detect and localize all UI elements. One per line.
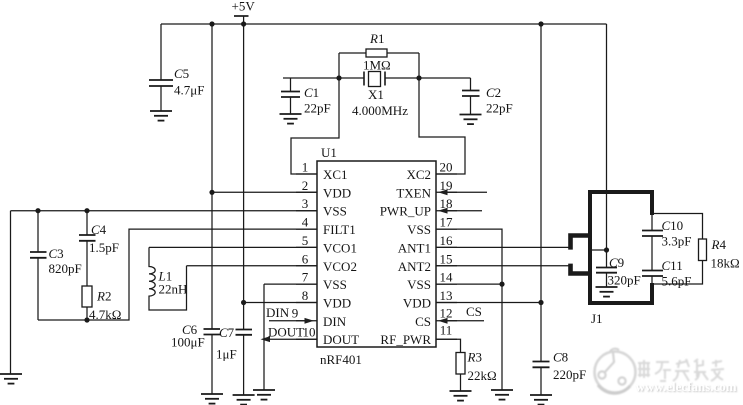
svg-text:4: 4 xyxy=(302,215,309,230)
pin 13 VDD xyxy=(403,288,457,311)
svg-text:11: 11 xyxy=(440,323,453,338)
svg-text:TXEN: TXEN xyxy=(396,185,431,200)
svg-text:C10: C10 xyxy=(662,218,684,233)
svg-text:C11: C11 xyxy=(662,258,683,273)
svg-text:VCO1: VCO1 xyxy=(323,240,357,255)
svg-text:VDD: VDD xyxy=(323,296,351,311)
watermark logo circle xyxy=(595,349,636,394)
junction dot crystal right node xyxy=(416,75,421,80)
pin 6 VCO2 xyxy=(296,251,357,274)
svg-text:X1: X1 xyxy=(368,87,384,102)
svg-text:R3: R3 xyxy=(467,350,482,365)
svg-text:22nH: 22nH xyxy=(159,282,188,297)
capacitor C7 1uF xyxy=(216,325,252,395)
junction dot C3 top xyxy=(35,208,40,213)
ground for R3 xyxy=(450,391,472,401)
svg-text:1MΩ: 1MΩ xyxy=(363,58,391,73)
svg-text:16: 16 xyxy=(440,233,454,248)
wire pin13 VDD to +5V column xyxy=(436,302,541,304)
svg-text:R4: R4 xyxy=(711,237,727,252)
svg-text:20: 20 xyxy=(440,160,453,175)
signal DOUT arrow out of pin 10 xyxy=(261,325,318,343)
junction dot pin8 VDD xyxy=(241,300,246,305)
svg-text:XC1: XC1 xyxy=(323,167,348,182)
svg-text:7: 7 xyxy=(302,270,309,285)
signal DIN arrow into pin 9 xyxy=(266,305,314,324)
svg-text:13: 13 xyxy=(440,288,453,303)
capacitor C6 100uF xyxy=(171,322,220,394)
svg-text:14: 14 xyxy=(440,270,454,285)
svg-text:CS: CS xyxy=(415,314,431,329)
connector J1 box xyxy=(590,192,652,303)
wire pin6 VCO2 xyxy=(187,265,318,267)
svg-text:5: 5 xyxy=(302,233,309,248)
svg-text:22kΩ: 22kΩ xyxy=(468,368,497,383)
svg-text:R1: R1 xyxy=(369,31,384,46)
svg-text:18kΩ: 18kΩ xyxy=(711,256,740,271)
svg-text:VSS: VSS xyxy=(407,222,431,237)
svg-text:320pF: 320pF xyxy=(608,273,641,288)
svg-text:1μF: 1μF xyxy=(216,347,237,362)
svg-text:C1: C1 xyxy=(304,85,319,100)
ground for C5 xyxy=(150,111,172,121)
svg-text:VSS: VSS xyxy=(407,277,431,292)
svg-text:VDD: VDD xyxy=(323,185,351,200)
ground for C8 xyxy=(530,395,552,405)
pin 17 VSS xyxy=(407,215,457,238)
svg-text:12: 12 xyxy=(440,305,453,320)
pin 1 XC1 xyxy=(296,160,348,183)
svg-text:8: 8 xyxy=(302,288,309,303)
watermark text dianzifashaoyou xyxy=(638,359,724,381)
svg-text:+5V: +5V xyxy=(232,0,256,14)
svg-text:5.6pF: 5.6pF xyxy=(662,274,692,289)
pin 16 ANT1 xyxy=(398,233,457,256)
signal PWR_UP arrow into pin 18 xyxy=(438,208,482,214)
svg-text:C8: C8 xyxy=(553,350,568,365)
svg-text:VDD: VDD xyxy=(403,296,431,311)
svg-text:9: 9 xyxy=(292,305,299,320)
svg-text:DOUT: DOUT xyxy=(268,325,304,340)
crystal X1 4.000MHz xyxy=(339,72,419,119)
wire ANT2 pin15 to J1 xyxy=(436,265,571,267)
wire +5V rail down to J1 / C9 node xyxy=(606,24,608,250)
ground for VSS column xyxy=(491,390,513,400)
svg-text:DOUT: DOUT xyxy=(323,332,359,347)
wire pin8 VDD to rail column xyxy=(244,302,317,304)
svg-text:3: 3 xyxy=(302,196,309,211)
wire crystal left node to pin 1 XC1 xyxy=(291,78,339,174)
svg-text:PWR_UP: PWR_UP xyxy=(380,204,431,219)
capacitor C9 320pF xyxy=(596,250,641,288)
svg-text:FILT1: FILT1 xyxy=(323,222,356,237)
capacitor C10 3.3pF xyxy=(642,215,691,271)
ground for C2 xyxy=(460,115,482,125)
connector tab ANT2 xyxy=(571,264,591,274)
ground far left xyxy=(0,374,22,384)
capacitor C4 1.5pF xyxy=(79,211,119,286)
svg-text:VSS: VSS xyxy=(323,204,347,219)
svg-text:3.3pF: 3.3pF xyxy=(662,234,692,249)
capacitor C11 5.6pF xyxy=(642,258,691,289)
pin 3 VSS xyxy=(296,196,347,219)
svg-text:17: 17 xyxy=(440,215,454,230)
svg-text:4.000MHz: 4.000MHz xyxy=(352,103,408,118)
svg-text:C7: C7 xyxy=(219,325,235,340)
wire +5V column down to C8 xyxy=(540,24,542,362)
pin 5 VCO1 xyxy=(296,233,357,256)
svg-text:6: 6 xyxy=(302,251,309,266)
svg-text:XC2: XC2 xyxy=(406,167,431,182)
signal TXEN arrow into pin 19 xyxy=(438,189,487,195)
junction dot rail x243.6 xyxy=(241,21,246,26)
wire +5V top rail xyxy=(161,23,607,25)
svg-text:1: 1 xyxy=(302,160,309,175)
svg-text:C3: C3 xyxy=(49,246,64,261)
svg-text:DIN: DIN xyxy=(266,305,290,320)
resistor R3 22kohm xyxy=(456,350,497,392)
capacitor C2 22pF xyxy=(419,78,513,116)
pin 15 ANT2 xyxy=(398,251,457,274)
pin 10 DOUT xyxy=(296,325,359,348)
capacitor C8 220pF xyxy=(533,350,587,396)
junction dot crystal left node xyxy=(336,75,341,80)
wire pin14 VSS to VSS column xyxy=(436,283,502,285)
pin 8 VDD xyxy=(296,288,351,311)
junction dot C4 top xyxy=(84,208,89,213)
junction dot rail x212 xyxy=(209,21,214,26)
svg-text:10: 10 xyxy=(303,325,316,340)
wire VDD rail to pin2 and C6 xyxy=(211,24,213,329)
wire pin11 RF_PWR down to R3 xyxy=(436,339,461,352)
wire pin3 VSS to left ground xyxy=(11,211,318,374)
junction dot C9 node xyxy=(604,247,609,252)
svg-text:22pF: 22pF xyxy=(304,101,331,116)
wire pin5 VCO1 xyxy=(149,246,317,248)
svg-text:4.7μF: 4.7μF xyxy=(174,83,204,98)
wire loop filter bottom to pin 4 FILT1 xyxy=(38,229,317,320)
resistor R4 18kohm xyxy=(699,237,740,271)
svg-text:J1: J1 xyxy=(591,311,603,326)
ground for C7 xyxy=(233,395,255,405)
pin 11 RF_PWR xyxy=(380,323,457,348)
wire pin17 VSS down to ground xyxy=(436,229,502,390)
junction dot R2 bottom xyxy=(84,317,89,322)
connector tab ANT1 xyxy=(571,236,591,250)
svg-text:220pF: 220pF xyxy=(553,367,586,382)
svg-text:CS: CS xyxy=(466,304,482,319)
pin 9 DIN xyxy=(292,305,347,329)
wire ANT1 pin16 to J1 xyxy=(436,246,571,248)
svg-text:R2: R2 xyxy=(96,289,111,304)
svg-text:C2: C2 xyxy=(486,85,501,100)
inductor L1 22nH xyxy=(149,247,187,310)
svg-text:ANT2: ANT2 xyxy=(398,259,431,274)
svg-text:U1: U1 xyxy=(321,145,337,160)
capacitor C1 22pF xyxy=(281,78,339,116)
svg-text:820pF: 820pF xyxy=(49,261,82,276)
wire J1 internal node xyxy=(592,249,607,251)
pin 18 PWR_UP xyxy=(380,196,457,219)
pin 7 VSS xyxy=(296,270,347,293)
svg-text:VCO2: VCO2 xyxy=(323,259,357,274)
power terminal +5V xyxy=(232,0,256,24)
svg-text:C5: C5 xyxy=(174,66,189,81)
svg-text:DIN: DIN xyxy=(323,314,347,329)
svg-text:C4: C4 xyxy=(91,222,107,237)
wire VDD rail to pin8 and C7 xyxy=(243,24,245,330)
pin 4 FILT1 xyxy=(296,215,356,238)
wire pin2 VDD to rail column xyxy=(212,191,317,193)
svg-text:100μF: 100μF xyxy=(171,335,205,350)
svg-text:nRF401: nRF401 xyxy=(320,352,362,367)
svg-text:RF_PWR: RF_PWR xyxy=(380,332,431,347)
junction dot pin14 VSS xyxy=(499,282,504,287)
capacitor C3 820pF xyxy=(30,211,82,320)
svg-text:2: 2 xyxy=(302,178,309,193)
pin 14 VSS xyxy=(407,270,457,293)
svg-text:22pF: 22pF xyxy=(486,101,513,116)
wire crystal right node to pin 20 XC2 xyxy=(419,78,465,174)
svg-text:C9: C9 xyxy=(609,255,624,270)
junction dot pin13 VDD xyxy=(538,300,543,305)
svg-text:1.5pF: 1.5pF xyxy=(89,240,119,255)
resistor R1 1Mohm xyxy=(339,31,419,78)
resistor R2 4.7kohm xyxy=(82,286,121,322)
pin 19 TXEN xyxy=(396,178,457,201)
pin 12 CS xyxy=(415,305,457,329)
signal CS arrow into pin 12 xyxy=(438,304,484,324)
junction dot pin2 VDD xyxy=(209,190,214,195)
svg-text:VSS: VSS xyxy=(323,277,347,292)
wire pin7 VSS to ground xyxy=(264,284,317,390)
svg-text:ANT1: ANT1 xyxy=(398,240,431,255)
ground for pin7 VSS xyxy=(253,390,275,400)
op IC U1 nRF401 box xyxy=(317,161,436,347)
svg-text:15: 15 xyxy=(440,251,453,266)
wire J1 to R4 bottom xyxy=(652,261,703,285)
watermark url www.elecfans.com xyxy=(636,379,738,395)
wire J1 to R4 top xyxy=(652,214,703,240)
ground for C6 xyxy=(201,394,223,404)
ground for C1 xyxy=(280,114,302,124)
svg-text:www.elecfans.com: www.elecfans.com xyxy=(636,379,737,394)
pin 2 VDD xyxy=(296,178,351,201)
junction dot rail x541 xyxy=(538,21,543,26)
ground for C9 xyxy=(596,287,618,297)
capacitor C5 4.7uF xyxy=(149,24,204,111)
pin 20 XC2 xyxy=(406,160,457,183)
